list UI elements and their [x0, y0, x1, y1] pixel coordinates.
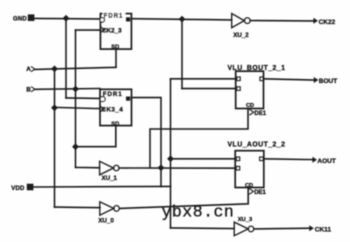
junction Q2 rail at XU_1 out	[158, 164, 165, 171]
wire B branch down	[75, 89, 77, 167]
output port CK22	[313, 18, 335, 26]
input port VDD	[11, 185, 32, 192]
svg-text:VDD: VDD	[11, 186, 25, 192]
wire GND branch to U2.D	[66, 97, 100, 100]
wire U2.CK pin	[55, 107, 101, 108]
svg-text:DE1: DE1	[254, 111, 266, 117]
wire BOUT output	[264, 79, 315, 80]
wire XU_1 output to AOUT pin2	[119, 167, 236, 169]
svg-text:CK3_4: CK3_4	[102, 106, 124, 113]
svg-text:XU_2: XU_2	[233, 32, 249, 39]
svg-text:BOUT: BOUT	[319, 78, 337, 85]
output port AOUT	[312, 157, 335, 165]
input port GND	[13, 15, 34, 22]
wire B branch to U1.CK pin	[76, 29, 101, 31]
input port B	[26, 86, 35, 93]
output port BOUT	[314, 77, 337, 85]
junction on B wire	[72, 86, 79, 93]
svg-text:XU_0: XU_0	[98, 217, 114, 224]
register VLU_BOUT_2_1	[228, 65, 286, 117]
wire GND to U1.D	[34, 17, 100, 20]
wire B	[35, 88, 100, 91]
wire U1.Q to XU_2	[131, 19, 231, 20]
svg-text:FDR1: FDR1	[104, 12, 124, 19]
junction on Q1 wire	[179, 16, 186, 23]
wire BOUT.CD route to XU_1 out	[150, 109, 248, 168]
output port CK11	[309, 225, 331, 233]
inverter XU_1	[100, 161, 120, 182]
wire U2.SD route	[76, 126, 116, 147]
svg-text:DE1: DE1	[254, 190, 266, 196]
junction on GND wire	[63, 15, 70, 22]
svg-text:VLU_AOUT_2_2: VLU_AOUT_2_2	[228, 142, 286, 149]
wire XU_0 output to AOUT.CD	[119, 188, 248, 209]
inverter XU_2	[232, 14, 251, 40]
svg-text:CK2_3: CK2_3	[102, 27, 122, 34]
wire XU_2 output to CK22	[250, 20, 314, 22]
svg-text:B: B	[26, 86, 31, 93]
wire rail to XU_3 input	[171, 227, 235, 230]
wire U2.Q right and down	[132, 98, 162, 187]
wire vertical rail x170	[170, 79, 172, 228]
junction A branch at CK3_4	[51, 104, 58, 111]
wire XU_3 output to CK11	[254, 227, 310, 230]
wire B branch up to U1.CK	[75, 30, 77, 89]
wire rail to AOUT pin1	[171, 158, 237, 160]
wire Q1 branch to BOUT reg pin2	[182, 88, 237, 90]
wire Q1 branch down	[181, 19, 183, 89]
svg-text:SD: SD	[111, 121, 119, 127]
svg-text:FDR1: FDR1	[103, 91, 123, 98]
wire U1.SD pin drop	[115, 49, 117, 67]
svg-text:XU_1: XU_1	[102, 175, 118, 182]
svg-text:CK11: CK11	[315, 226, 332, 233]
input port A	[26, 66, 35, 73]
wire VDD rail to BOUT pin1	[171, 78, 237, 80]
svg-text:SD: SD	[111, 44, 119, 50]
wire GND branch down	[65, 18, 67, 98]
svg-text:AOUT: AOUT	[317, 158, 335, 165]
register VLU_AOUT_2_2	[228, 142, 286, 197]
svg-text:CK22: CK22	[319, 19, 336, 26]
flip-flop U2 FDR1 (CK3_4)	[100, 89, 132, 127]
svg-text:GND: GND	[13, 17, 27, 23]
svg-text:XU_3: XU_3	[238, 217, 253, 223]
flip-flop U1 FDR1 (CK2_3)	[100, 11, 131, 50]
wire AOUT output	[264, 158, 313, 161]
wire VDD	[33, 185, 171, 188]
wire A to U1.SD	[35, 67, 116, 69]
junction on A wire	[51, 66, 58, 73]
wire A branch down	[54, 69, 56, 207]
inverter XU_0	[98, 202, 119, 225]
wire A branch to XU_0 input	[55, 206, 101, 209]
svg-text:A: A	[26, 66, 31, 73]
junction rail at AOUT pin1	[167, 155, 174, 162]
wire to XU_1 input	[76, 166, 100, 168]
svg-text:CD: CD	[246, 103, 254, 109]
inverter XU_3	[234, 217, 254, 236]
junction B branch at SD2	[72, 143, 79, 150]
